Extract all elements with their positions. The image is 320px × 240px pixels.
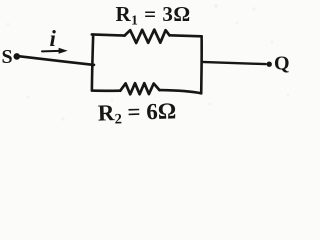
wire: top-right segment xyxy=(170,35,202,36)
resistor R1 (zigzag) xyxy=(125,30,170,43)
svg-text:S: S xyxy=(2,46,13,68)
resistor R2 (zigzag) xyxy=(120,83,159,94)
svg-text:Q: Q xyxy=(274,53,290,75)
node S junction dot xyxy=(13,53,20,60)
wire: right vertical edge of parallel loop xyxy=(200,36,203,93)
svg-text:i: i xyxy=(50,26,57,51)
node S label xyxy=(2,46,13,68)
wire: top-left segment xyxy=(92,34,125,35)
wire: loop to node Q xyxy=(202,62,266,64)
wire S to left junction xyxy=(20,56,95,65)
wire: bottom-right segment xyxy=(160,90,202,93)
current arrow xyxy=(42,48,68,54)
node Q junction dot xyxy=(267,61,272,66)
svg-text:R1 = 3Ω: R1 = 3Ω xyxy=(116,2,191,27)
svg-text:R2 = 6Ω: R2 = 6Ω xyxy=(97,98,176,128)
wire: left vertical edge of parallel loop xyxy=(92,35,93,91)
label R1 = 3 ohm xyxy=(116,2,191,27)
paper background xyxy=(0,0,300,133)
label R2 = 6 ohm xyxy=(97,98,176,128)
wire: bottom-left segment xyxy=(92,89,120,92)
